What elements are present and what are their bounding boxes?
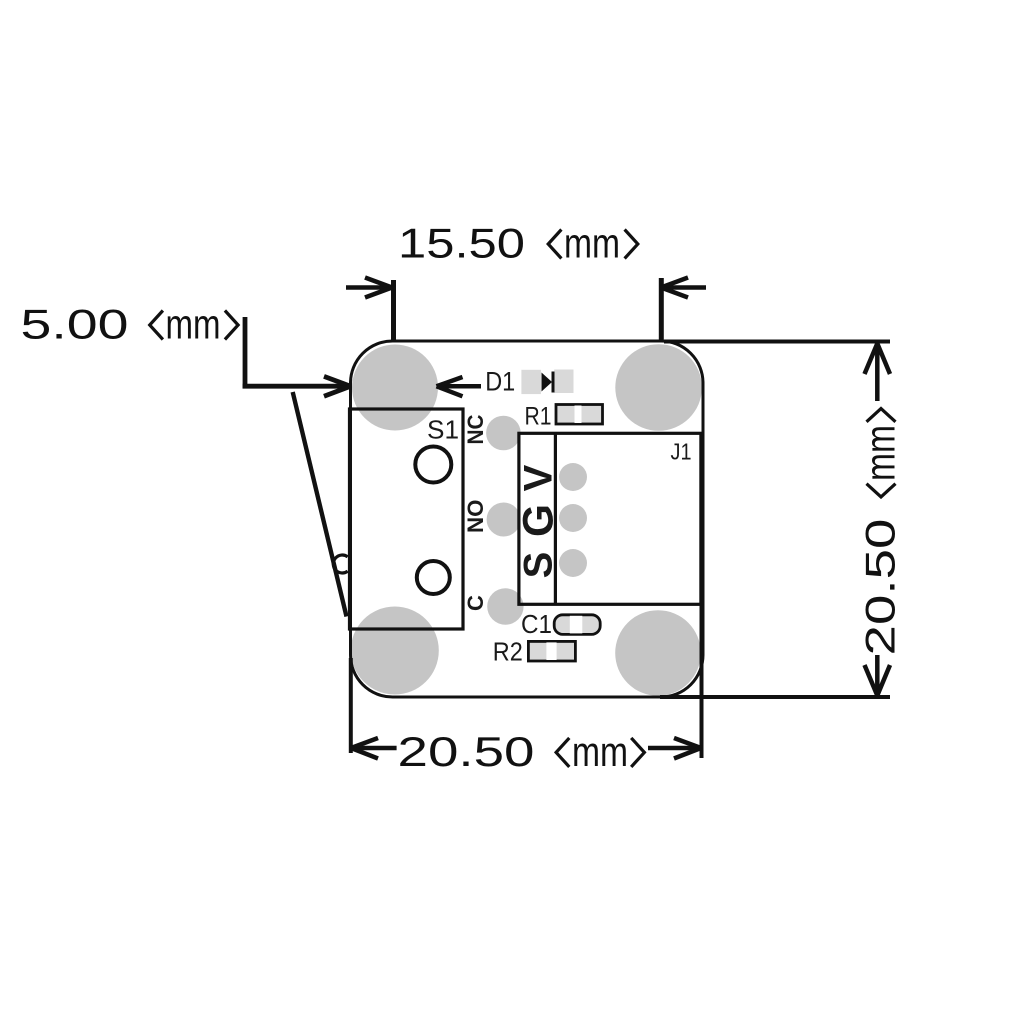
svg-text:NO: NO <box>463 500 488 534</box>
svg-text:20.50: 20.50 <box>398 728 535 775</box>
board outline PCB fill <box>351 341 704 697</box>
pad NC <box>486 416 521 451</box>
board outline stroke <box>351 341 704 697</box>
dimension 15.50 extension tick right <box>659 278 664 342</box>
dimension 5.00 (mm) label <box>21 301 239 348</box>
mounting pad bottom-right <box>615 610 701 696</box>
dimension 20.50 right arrow down <box>865 665 891 696</box>
diode D1 pad left <box>521 370 541 394</box>
dimension 20.50 bottom extension right <box>700 602 704 758</box>
svg-text:J1: J1 <box>671 439 692 465</box>
dimension 20.50 right arrow up <box>865 344 891 375</box>
svg-text:V: V <box>517 464 561 491</box>
svg-text:D1: D1 <box>485 367 515 397</box>
switch S1 hole bottom <box>417 561 450 594</box>
diode D1 leader arrow <box>437 377 482 396</box>
resistor R2 body <box>528 641 575 661</box>
switch S1 body <box>350 409 464 629</box>
svg-text:G: G <box>516 504 563 537</box>
svg-text:mm: mm <box>166 301 221 348</box>
dimension 20.50 right label (rotated) <box>857 409 904 656</box>
svg-text:R2: R2 <box>493 639 523 667</box>
pad C <box>487 588 523 624</box>
dimension 20.50 bottom extension left <box>349 658 353 753</box>
mounting pad bottom-left <box>351 607 439 695</box>
svg-text:C1: C1 <box>521 611 552 639</box>
dimension 15.50 (mm) top label <box>398 220 638 267</box>
mounting pad top-left <box>352 345 438 431</box>
mounting pad top-right <box>615 344 702 431</box>
dimension 20.50 right extension bottom <box>660 695 890 699</box>
dimension 20.50 right line lower <box>875 655 880 694</box>
pad J1-V <box>559 463 587 491</box>
pad J1-S <box>559 549 587 577</box>
dimension 15.50 left arrow <box>346 278 392 298</box>
svg-text:20.50: 20.50 <box>857 519 904 656</box>
resistor R1 body <box>556 405 603 425</box>
dimension 20.50 right line upper <box>875 344 880 401</box>
pad J1-G <box>559 504 587 532</box>
dimension 15.50 extension tick left <box>391 280 396 341</box>
connector J1 divider <box>554 433 557 604</box>
switch S1 pivot circle <box>333 555 347 573</box>
svg-text:S1: S1 <box>427 415 459 445</box>
svg-text:C: C <box>463 595 488 611</box>
switch S1 lever <box>293 392 347 617</box>
diode D1 symbol <box>542 373 553 392</box>
svg-text:R1: R1 <box>525 403 552 431</box>
svg-text:mm: mm <box>857 425 904 481</box>
dimension 5.00 leader line <box>243 317 351 396</box>
svg-text:S: S <box>517 552 561 579</box>
svg-text:mm: mm <box>572 728 628 775</box>
svg-text:5.00: 5.00 <box>21 301 129 348</box>
switch S1 hole top <box>415 447 451 483</box>
dimension 15.50 right arrow <box>661 278 706 298</box>
dimension 20.50 bottom label <box>398 728 645 775</box>
dimension 20.50 bottom left arrow <box>351 738 397 759</box>
capacitor C1 body <box>554 615 600 635</box>
diode D1 pad right <box>554 370 573 394</box>
svg-text:mm: mm <box>564 220 620 267</box>
svg-text:15.50: 15.50 <box>398 220 525 267</box>
dimension 20.50 bottom right arrow <box>648 738 701 759</box>
pad NO <box>487 503 521 537</box>
connector J1 box <box>519 433 701 604</box>
dimension 20.50 right extension top <box>664 340 890 344</box>
svg-text:NC: NC <box>463 414 488 444</box>
